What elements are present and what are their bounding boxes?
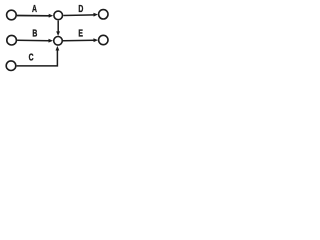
wire: dummy arrow from node4 down to node5 bbox=[57, 21, 59, 33]
wire: activity D arrow from node4 to node6 bbox=[63, 14, 94, 17]
wire: activity A arrow from node1 to node4 bbox=[17, 15, 49, 17]
node 2 (mid-left circle) bbox=[7, 35, 17, 45]
svg-text:D: D bbox=[78, 3, 83, 15]
node 4 (top-middle circle) bbox=[54, 11, 63, 20]
wire: activity B arrow from node2 to node5 bbox=[17, 39, 49, 41]
svg-text:A: A bbox=[32, 3, 37, 15]
svg-text:C: C bbox=[29, 51, 34, 63]
node 1 (top-left circle) bbox=[7, 10, 17, 20]
svg-text:E: E bbox=[78, 27, 83, 39]
node 5 (mid-middle circle) bbox=[54, 37, 63, 46]
wire: activity C elbow from node3 right then up into node5 bbox=[17, 49, 58, 66]
node 6 (top-right circle) bbox=[99, 10, 108, 19]
wire: activity E arrow from node5 to node7 bbox=[63, 39, 95, 42]
svg-text:B: B bbox=[32, 27, 37, 39]
node 3 (bottom-left circle) bbox=[6, 61, 16, 71]
node 7 (mid-right circle) bbox=[99, 35, 108, 44]
